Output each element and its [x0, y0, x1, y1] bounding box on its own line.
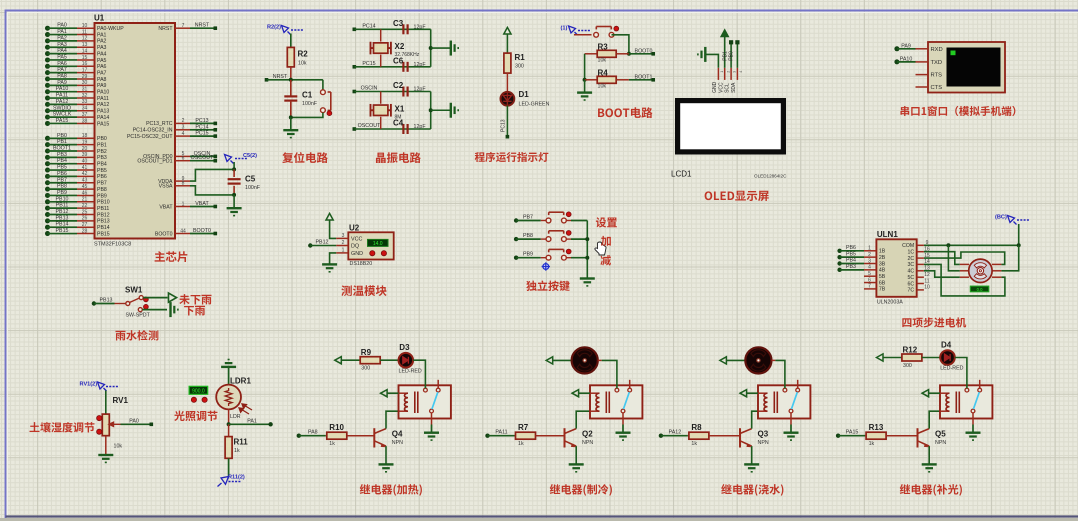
- svg-text:ULN2003A: ULN2003A: [877, 300, 903, 306]
- wire net PA12 input: [659, 434, 663, 438]
- svg-text:1C: 1C: [908, 250, 915, 256]
- svg-text:NRST: NRST: [195, 23, 210, 29]
- wire net PA7 to U1 pin 17: [45, 70, 50, 75]
- relay coil: [590, 392, 600, 394]
- svg-text:PB9: PB9: [523, 252, 533, 258]
- relay box: [940, 385, 992, 418]
- svg-text:ULN1: ULN1: [877, 230, 898, 239]
- wire net PC15: [353, 65, 357, 69]
- wire Q2 collector to relay coil: [576, 411, 590, 428]
- power arrow relay coil: [572, 390, 579, 397]
- svg-text:30: 30: [82, 80, 88, 86]
- relay coil: [399, 392, 409, 394]
- wire motor to relay: [598, 359, 602, 361]
- label 减: [600, 255, 611, 265]
- svg-text:1B: 1B: [879, 249, 886, 255]
- svg-text:7: 7: [182, 23, 185, 29]
- svg-text:PC15-OSC32_OUT: PC15-OSC32_OUT: [127, 134, 173, 140]
- wire net PA11 input: [485, 434, 489, 438]
- relay blade: [623, 392, 629, 409]
- resistor R8 1k: [688, 435, 689, 437]
- svg-text:PA2: PA2: [97, 39, 107, 45]
- power flag R11(2): [218, 477, 229, 487]
- wire net PA15 to U1 pin 38: [45, 121, 50, 126]
- ground relay common: [784, 433, 799, 441]
- wire power to C5 node: [233, 162, 235, 169]
- U2 pin 2 DQ: [336, 245, 348, 247]
- svg-text:33: 33: [82, 99, 88, 105]
- wire net PA12 to U1 pin 33: [45, 102, 50, 107]
- power flag C5(2): [225, 155, 234, 164]
- svg-text:PA15: PA15: [846, 430, 859, 436]
- svg-text:PB1: PB1: [722, 51, 728, 61]
- resistor R12 300: [902, 354, 922, 361]
- svg-text:R13: R13: [869, 423, 884, 432]
- svg-text:1k: 1k: [234, 448, 240, 454]
- svg-text:PA15: PA15: [97, 121, 109, 127]
- junction C5 top node: [232, 167, 236, 171]
- wire PB13 to SW1: [92, 301, 96, 305]
- ULN1 pin 12 5C: [917, 276, 924, 278]
- svg-text:(1): (1): [561, 26, 568, 32]
- svg-text:PA12: PA12: [97, 102, 109, 108]
- junction COM left: [946, 243, 950, 247]
- wire RV1 bottom to ground: [105, 436, 107, 455]
- svg-text:PA5: PA5: [57, 54, 67, 60]
- ground DS18B20: [322, 264, 337, 272]
- crystal X1 8M: [380, 92, 382, 104]
- ULN1 pin 5 5B: [864, 275, 876, 277]
- transistor Q2 NPN: [565, 428, 577, 447]
- svg-text:PB14: PB14: [56, 222, 69, 228]
- wire net PB10 to U1 pin 21: [45, 199, 50, 204]
- svg-text:1k: 1k: [518, 441, 524, 447]
- svg-text:12pF: 12pF: [414, 124, 427, 130]
- wire D4 to relay: [955, 358, 967, 389]
- LDR readout display: [189, 386, 208, 394]
- wire PB9 button to bus: [571, 257, 587, 259]
- svg-text:10k: 10k: [114, 444, 123, 450]
- wire net PB9 to U1 pin 46: [45, 193, 50, 198]
- svg-text:PA10: PA10: [97, 90, 109, 96]
- svg-text:19: 19: [82, 139, 88, 145]
- svg-text:PB7: PB7: [523, 215, 533, 221]
- svg-text:PA8: PA8: [308, 430, 318, 436]
- svg-text:PB13: PB13: [100, 298, 113, 304]
- svg-text:BOOT0: BOOT0: [635, 48, 653, 54]
- wire OLED SDA to PB0: [736, 42, 738, 68]
- svg-text:PB5: PB5: [57, 165, 67, 171]
- ULN1 pin 13 4C: [917, 270, 924, 272]
- svg-text:OLED12864I2C: OLED12864I2C: [754, 174, 787, 179]
- svg-text:PC14: PC14: [362, 23, 375, 29]
- svg-text:VCC: VCC: [351, 236, 362, 242]
- svg-text:NPN: NPN: [758, 440, 769, 446]
- resistor R3 10k: [585, 53, 598, 55]
- junction bus PB9: [585, 256, 589, 260]
- svg-text:PA11: PA11: [56, 93, 68, 99]
- push button PB8: [546, 231, 566, 242]
- U1 pin 7 NRST: [175, 27, 190, 29]
- ULN1 pin 2 2B: [864, 256, 876, 258]
- DS18B20 buttons: [370, 251, 375, 256]
- DC motor: [745, 347, 771, 373]
- svg-text:LDR: LDR: [230, 414, 241, 420]
- wire Q3 emitter to ground: [751, 446, 753, 464]
- svg-text:R10: R10: [329, 423, 344, 432]
- relay blade: [432, 392, 438, 409]
- svg-text:C5(2): C5(2): [243, 153, 257, 159]
- wire net PA8 input: [297, 434, 301, 438]
- power arrow relay coil: [381, 390, 388, 397]
- resistor R9 300: [360, 357, 380, 364]
- svg-text:PA4: PA4: [57, 48, 67, 54]
- svg-text:RV1: RV1: [113, 396, 129, 405]
- label BOOT电路: [598, 107, 652, 118]
- svg-text:PA5: PA5: [97, 58, 107, 64]
- svg-text:8: 8: [182, 181, 185, 187]
- power arrow relay coil: [922, 390, 929, 397]
- svg-text:PB14: PB14: [97, 225, 110, 231]
- wire RV1 wiper to PA0: [121, 423, 151, 425]
- svg-text:5B: 5B: [879, 274, 886, 280]
- svg-text:PB3: PB3: [57, 152, 67, 158]
- resistor R10 1k: [326, 435, 327, 437]
- svg-text:PA3: PA3: [57, 42, 67, 48]
- svg-text:5: 5: [868, 271, 871, 277]
- ULN1 pin 7 7B: [864, 288, 876, 290]
- svg-text:20: 20: [82, 146, 88, 152]
- ground of reset circuit: [283, 130, 298, 138]
- svg-text:4: 4: [868, 265, 871, 271]
- relay box: [590, 385, 642, 418]
- power arrow OLED VCC: [721, 30, 729, 37]
- svg-text:1: 1: [342, 247, 345, 253]
- svg-text:900.0: 900.0: [192, 389, 205, 395]
- wire 4C to motor left-bottom pin: [924, 271, 960, 277]
- svg-text:R7: R7: [518, 423, 529, 432]
- svg-text:PB1: PB1: [97, 142, 107, 148]
- terminal pin RTS: [916, 74, 929, 76]
- wire power to R2 top: [290, 34, 292, 48]
- svg-text:COM: COM: [902, 243, 914, 249]
- svg-text:PB11: PB11: [97, 206, 109, 212]
- stepper readout display: [970, 286, 989, 292]
- wire net PA8 to U1 pin 29: [45, 77, 50, 82]
- svg-text:6B: 6B: [879, 280, 886, 286]
- svg-text:OSCIN: OSCIN: [361, 86, 378, 92]
- virtual terminal body: [928, 42, 1005, 93]
- svg-text:X1: X1: [395, 104, 405, 113]
- wire net PA1 to U1 pin 11: [45, 32, 50, 37]
- svg-text:VCC: VCC: [718, 82, 724, 93]
- svg-text:40: 40: [82, 159, 88, 165]
- wire R4 to BOOT1 terminal: [629, 79, 653, 81]
- terminal pin TXD: [916, 61, 929, 63]
- relay switch contacts: [629, 380, 631, 388]
- svg-text:10k: 10k: [598, 84, 607, 90]
- svg-text:LED-RED: LED-RED: [940, 366, 963, 372]
- wire Q4 emitter to ground: [385, 446, 387, 464]
- svg-text:PB12: PB12: [56, 209, 69, 215]
- svg-text:Q5: Q5: [935, 430, 946, 439]
- svg-text:PB3: PB3: [846, 264, 856, 270]
- relay switch contacts: [979, 380, 981, 388]
- label 加: [601, 236, 611, 246]
- svg-text:100nF: 100nF: [245, 185, 261, 191]
- label 继电器(浇水): [721, 484, 783, 496]
- U1 pin 2 PC13_RTC: [175, 122, 190, 124]
- DC motor: [572, 347, 598, 373]
- svg-text:32: 32: [82, 93, 88, 99]
- wire net PB6 to U1 pin 42: [45, 174, 50, 179]
- svg-text:5C: 5C: [908, 275, 915, 281]
- ground relay common: [966, 433, 981, 441]
- svg-text:34: 34: [82, 106, 88, 112]
- svg-text:R3: R3: [598, 43, 609, 52]
- power arrow right 未下雨: [168, 293, 176, 302]
- svg-text:GND: GND: [351, 251, 363, 257]
- svg-text:13: 13: [82, 42, 88, 48]
- ground BOOT circuit: [577, 93, 592, 101]
- push button PB7: [546, 212, 566, 223]
- svg-text:37: 37: [82, 112, 88, 118]
- svg-text:16: 16: [82, 61, 88, 67]
- terminal cursor: [951, 51, 956, 56]
- key PB9 wire: [514, 256, 518, 260]
- label 雨水检测: [116, 330, 159, 340]
- svg-text:X2: X2: [395, 42, 405, 51]
- svg-text:11: 11: [82, 29, 87, 35]
- svg-text:39: 39: [82, 152, 88, 158]
- ground keys: [580, 279, 595, 287]
- svg-text:R8: R8: [691, 423, 702, 432]
- svg-text:12pF: 12pF: [414, 62, 427, 68]
- wire to ground: [290, 117, 292, 129]
- svg-text:2B: 2B: [879, 255, 886, 261]
- svg-text:17: 17: [82, 67, 88, 73]
- svg-text:D4: D4: [941, 340, 952, 349]
- svg-text:22: 22: [82, 203, 88, 209]
- wire R3 to BOOT0 terminal: [629, 53, 653, 55]
- wire net PB6: [837, 249, 841, 253]
- svg-text:PA6: PA6: [57, 61, 67, 67]
- svg-text:3: 3: [342, 233, 345, 239]
- svg-text:PA10: PA10: [56, 86, 69, 92]
- svg-text:NPN: NPN: [582, 440, 593, 446]
- ground relay common: [424, 433, 439, 441]
- wire OLED GND to ground: [706, 54, 718, 67]
- wire net PA9 to U1 pin 30: [45, 83, 50, 88]
- wire C5 bottom to ground: [233, 195, 235, 208]
- svg-text:RXD: RXD: [931, 47, 943, 53]
- svg-text:Q3: Q3: [758, 430, 769, 439]
- svg-text:PA9: PA9: [901, 43, 911, 49]
- stepper motor: [960, 259, 1002, 282]
- svg-text:PA8: PA8: [57, 74, 67, 80]
- mouse hand cursor: [595, 242, 606, 255]
- svg-text:2: 2: [868, 252, 871, 258]
- svg-text:SW-SPDT: SW-SPDT: [126, 313, 151, 319]
- wire right side vertical: [430, 29, 432, 67]
- wire LDR bottom junction PA1: [228, 409, 230, 424]
- svg-text:PB15: PB15: [56, 228, 69, 234]
- label 下雨: [184, 306, 205, 316]
- svg-text:3C: 3C: [908, 262, 915, 268]
- svg-text:6: 6: [868, 277, 871, 283]
- svg-text:R11(2): R11(2): [228, 475, 245, 481]
- junction right mid: [429, 108, 433, 112]
- junction bus PB8: [585, 237, 589, 241]
- wire net PB4 to U1 pin 40: [45, 161, 50, 166]
- wire net PB5 to U1 pin 41: [45, 168, 50, 173]
- svg-text:SCL: SCL: [725, 83, 731, 93]
- wire power to RV1: [105, 391, 107, 415]
- svg-text:U1: U1: [94, 14, 105, 23]
- wire net PB12 to U1 pin 25: [45, 212, 50, 217]
- svg-text:SWCLK: SWCLK: [53, 112, 72, 118]
- terminal pin CTS: [916, 86, 929, 88]
- power arrow lamp rail: [877, 354, 884, 361]
- wire relay common to ground: [972, 425, 974, 432]
- terminal pin RXD: [916, 48, 929, 50]
- resistor R4 10k: [585, 79, 598, 81]
- relay blade: [973, 392, 979, 409]
- svg-text:C1: C1: [302, 91, 313, 100]
- transistor Q5 NPN: [918, 428, 930, 447]
- wire net PA4 to U1 pin 14: [45, 51, 50, 56]
- svg-text:PB0: PB0: [729, 51, 735, 61]
- svg-text:Q2: Q2: [582, 430, 593, 439]
- svg-text:12: 12: [924, 272, 930, 278]
- relay switch contacts: [437, 380, 439, 388]
- svg-text:31: 31: [82, 87, 88, 93]
- svg-text:PA9: PA9: [57, 80, 67, 86]
- wire SW1 NC to ground 下雨: [142, 309, 167, 311]
- svg-text:PB6: PB6: [57, 171, 67, 177]
- U1 pin 1 VBAT: [175, 206, 190, 208]
- svg-text:41: 41: [82, 165, 88, 171]
- wire net PB3 to U1 pin 39: [45, 155, 50, 160]
- svg-text:BOOT0: BOOT0: [193, 228, 211, 234]
- svg-text:PC14-OSC32_IN: PC14-OSC32_IN: [133, 128, 173, 134]
- label main chip 主芯片: [155, 251, 188, 262]
- wire net PB0 to U1 pin 18: [45, 136, 50, 141]
- U1 pin 5 OSCIN_PD0: [175, 155, 190, 157]
- svg-text:1: 1: [868, 246, 871, 252]
- wire to ground BOOT: [584, 80, 586, 92]
- wire 3C to motor right-bottom pin: [924, 264, 1005, 296]
- svg-text:VBAT: VBAT: [159, 204, 173, 210]
- U2 pin 1 GND: [336, 252, 348, 254]
- svg-text:10k: 10k: [598, 58, 607, 64]
- svg-text:14: 14: [82, 48, 88, 54]
- resistor R7 1k: [515, 435, 516, 437]
- wire R11 to power flag: [228, 458, 230, 476]
- wire net PA6 to U1 pin 16: [45, 64, 50, 69]
- svg-text:PB12: PB12: [316, 240, 329, 246]
- wire Q5 emitter to ground: [928, 446, 930, 464]
- svg-text:CTS: CTS: [931, 85, 943, 91]
- push button PB9: [546, 249, 566, 260]
- wire net PB1 to U1 pin 19: [45, 142, 50, 147]
- key PB7 wire: [514, 218, 518, 222]
- svg-text:PA1: PA1: [247, 418, 257, 424]
- svg-text:(BC): (BC): [995, 215, 1007, 221]
- svg-text:4: 4: [739, 71, 743, 73]
- svg-text:300: 300: [515, 64, 524, 70]
- svg-text:R2: R2: [298, 50, 309, 59]
- svg-text:OSCOUT: OSCOUT: [191, 155, 214, 161]
- resistor R13 1k: [865, 435, 866, 437]
- relay blade: [791, 392, 797, 409]
- svg-text:10: 10: [82, 23, 88, 29]
- svg-text:NPN: NPN: [935, 440, 946, 446]
- wire net PA10 to U1 pin 31: [45, 89, 50, 94]
- power arrow relay coil: [740, 390, 747, 397]
- DS18B20 readout display: [368, 239, 389, 246]
- power arrow motor rail: [546, 357, 553, 364]
- svg-text:2: 2: [182, 118, 185, 124]
- svg-text:12: 12: [82, 36, 88, 42]
- driver ULN1 ULN2003A: [876, 239, 916, 296]
- svg-text:32.768KHz: 32.768KHz: [395, 52, 420, 58]
- svg-text:PA14: PA14: [97, 115, 109, 121]
- ground Q3 emitter: [744, 464, 759, 472]
- capacitor C5 100nF: [233, 169, 235, 177]
- power arrow lamp rail: [335, 357, 342, 364]
- svg-text:10: 10: [924, 285, 930, 291]
- svg-text:3B: 3B: [879, 261, 886, 267]
- svg-text:NRST: NRST: [158, 26, 173, 32]
- svg-text:PA11: PA11: [97, 96, 109, 102]
- cursor crosshair marker: [542, 262, 550, 270]
- junction R4 left: [583, 78, 587, 82]
- svg-text:7: 7: [868, 284, 871, 290]
- svg-text:PA15: PA15: [56, 118, 69, 124]
- wire net PB3: [837, 268, 841, 272]
- svg-text:PA0: PA0: [57, 23, 67, 29]
- svg-text:C3: C3: [393, 19, 404, 28]
- power arrow motor rail: [720, 357, 727, 364]
- U1 pin 3 PC14-OSC32_IN: [175, 129, 190, 131]
- svg-text:300: 300: [903, 363, 912, 369]
- svg-text:PB13: PB13: [97, 219, 110, 225]
- svg-text:1k: 1k: [691, 441, 697, 447]
- keys common bus wire: [586, 221, 588, 278]
- svg-text:PA7: PA7: [97, 70, 107, 76]
- label 土壤湿度调节: [30, 422, 95, 433]
- wire COM rail: [924, 244, 1019, 246]
- wire VDDA to C5 top node: [190, 169, 234, 181]
- ground relay common: [616, 433, 631, 441]
- wire to ground: [431, 109, 450, 111]
- wire net PB13 to U1 pin 26: [45, 218, 50, 223]
- svg-text:VBAT: VBAT: [195, 201, 209, 207]
- svg-text:12pF: 12pF: [414, 24, 427, 30]
- wire relay common to ground: [622, 425, 624, 432]
- svg-text:PB9: PB9: [57, 190, 67, 196]
- svg-text:RTS: RTS: [931, 73, 943, 79]
- svg-text:8M: 8M: [395, 114, 402, 120]
- ULN1 pin 14 3C: [917, 263, 924, 265]
- svg-text:NPN: NPN: [392, 440, 403, 446]
- wire net PB8 to U1 pin 45: [45, 187, 50, 192]
- svg-text:OSCOUT_PD1: OSCOUT_PD1: [137, 159, 172, 165]
- svg-text:PB10: PB10: [97, 200, 110, 206]
- svg-text:PA13: PA13: [97, 109, 109, 115]
- svg-text:1: 1: [182, 201, 185, 207]
